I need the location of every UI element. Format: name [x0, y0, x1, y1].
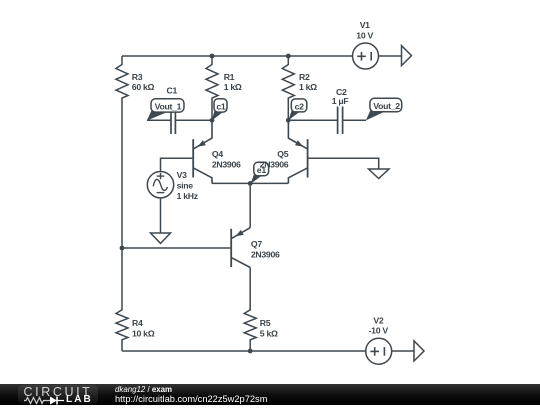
flag e1	[251, 162, 269, 184]
svg-text:V1: V1	[360, 20, 370, 30]
svg-text:V3: V3	[177, 170, 187, 180]
wire c2 right	[343, 119, 366, 121]
svg-text:1 μF: 1 μF	[332, 96, 349, 106]
ground V3	[151, 233, 171, 243]
svg-text:10 kΩ: 10 kΩ	[132, 328, 155, 338]
transistor Q4 emitter	[194, 120, 212, 148]
wire V1 to flag	[379, 55, 402, 57]
wire Q7 base	[122, 247, 230, 249]
svg-text:2N3906: 2N3906	[260, 159, 289, 169]
svg-text:Q4: Q4	[212, 149, 223, 159]
wire V3 bottom	[160, 198, 162, 233]
wire c1 left	[147, 119, 171, 121]
node dot e1	[248, 181, 253, 186]
svg-text:Q5: Q5	[277, 149, 288, 159]
flag c1	[212, 99, 227, 121]
footer user line	[115, 386, 172, 394]
wire top rail	[122, 55, 353, 57]
svg-text:R4: R4	[132, 318, 143, 328]
svg-text:2N3906: 2N3906	[251, 250, 280, 260]
transistor Q5 collector	[288, 168, 307, 183]
node dot c1	[210, 118, 215, 123]
svg-text:R5: R5	[260, 318, 271, 328]
svg-text:V2: V2	[373, 316, 383, 326]
svg-text:1 kΩ: 1 kΩ	[299, 82, 317, 92]
wire bottom rail	[122, 350, 366, 352]
wire V2 to flag	[392, 350, 414, 352]
wire c2 left	[288, 119, 337, 121]
V2 plus mark	[370, 347, 384, 356]
circuitlab logo plate	[18, 385, 98, 404]
svg-text:1 kHz: 1 kHz	[177, 191, 199, 201]
Q5 arrow	[295, 140, 303, 146]
footer url line	[115, 395, 267, 405]
transistor Q4 collector	[194, 168, 212, 183]
wire Q5 base	[309, 158, 379, 169]
svg-text:2N3906: 2N3906	[212, 159, 241, 169]
resistor R2	[282, 56, 294, 120]
logo resistor and diode glyph	[24, 396, 66, 405]
svg-text:5 kΩ: 5 kΩ	[260, 328, 278, 338]
svg-text:sine: sine	[177, 180, 194, 190]
circuitlab logo word CIRCUIT	[24, 385, 93, 399]
V1 plus mark	[357, 52, 371, 61]
svg-text:60 kΩ: 60 kΩ	[132, 82, 155, 92]
flag Vout_2	[366, 98, 402, 120]
voltage source V1	[353, 43, 379, 69]
transistor Q5 emitter	[288, 120, 307, 148]
voltage source V2	[366, 338, 392, 364]
wire left rail	[121, 120, 123, 248]
node dot Q7 base rail	[120, 246, 125, 251]
ground Q5	[369, 169, 390, 179]
capacitor C1	[171, 107, 175, 135]
V3 plus minus sine	[153, 173, 167, 193]
Q4 arrow	[198, 140, 206, 146]
transistor Q7 collector	[232, 258, 250, 268]
wire e1 to Q7 emitter	[249, 183, 251, 227]
footer bar	[0, 384, 540, 405]
node dot R1 top	[210, 54, 215, 59]
resistor R5	[244, 268, 256, 352]
node dot R2 top	[286, 54, 291, 59]
svg-text:C1: C1	[167, 86, 178, 96]
capacitor C2	[338, 107, 343, 135]
svg-text:c1: c1	[216, 101, 226, 111]
wire e1 rail	[212, 182, 288, 184]
svg-text:Q7: Q7	[251, 239, 262, 249]
transistor Q4 body	[192, 139, 194, 177]
svg-text:R3: R3	[132, 72, 143, 82]
power flag V1	[402, 46, 412, 66]
wire Q4 base	[161, 158, 193, 171]
transistor Q7 body	[230, 229, 232, 267]
svg-text:-10 V: -10 V	[369, 326, 389, 336]
resistor R3	[116, 56, 128, 120]
svg-text:1 kΩ: 1 kΩ	[224, 82, 242, 92]
node dot c2	[286, 118, 291, 123]
power flag V2	[414, 341, 424, 361]
svg-text:Vout_2: Vout_2	[373, 101, 400, 111]
logo word LAB	[66, 395, 93, 404]
resistor R1	[206, 56, 218, 120]
flag c2	[288, 99, 306, 120]
flag Vout_1	[147, 99, 184, 121]
svg-text:R2: R2	[299, 72, 310, 82]
svg-text:Vout_1: Vout_1	[155, 101, 182, 111]
svg-text:10 V: 10 V	[356, 30, 373, 40]
transistor Q7 emitter	[232, 228, 250, 239]
voltage source V3	[147, 172, 173, 198]
svg-text:c2: c2	[295, 101, 305, 111]
resistor R4	[116, 248, 128, 351]
node dot bottom rail	[248, 349, 253, 354]
wire c1 right	[175, 119, 212, 121]
svg-text:R1: R1	[224, 72, 235, 82]
transistor Q5 body	[307, 139, 309, 177]
Q7 arrow	[236, 230, 244, 236]
